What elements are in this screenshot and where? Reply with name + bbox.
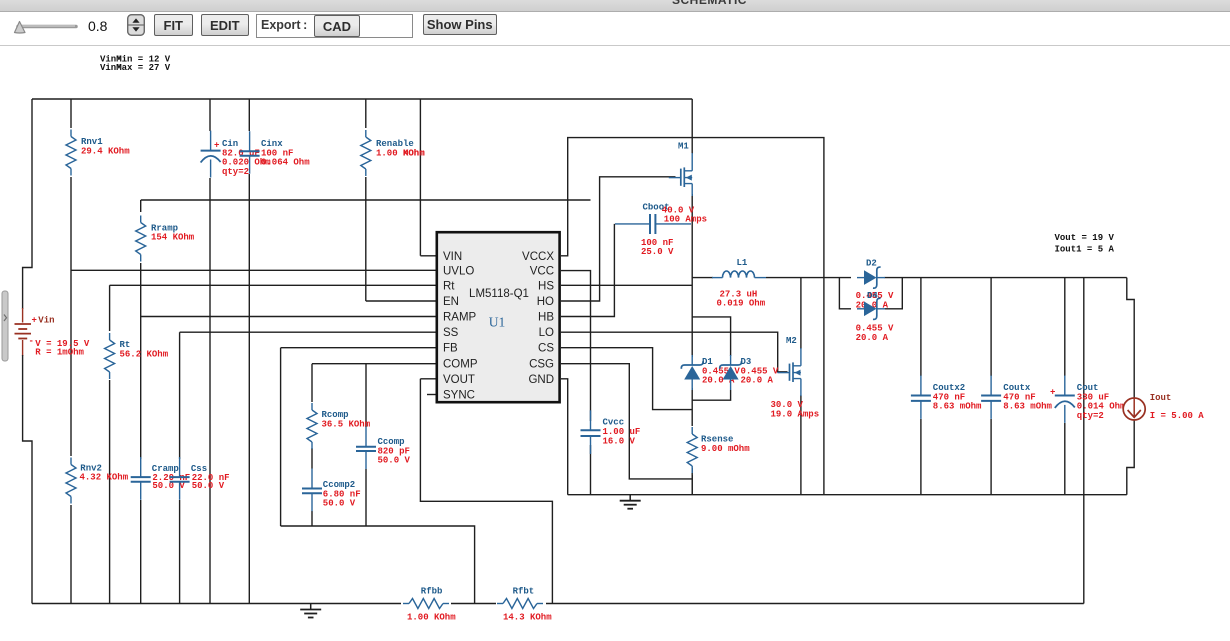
wire M2 drain xyxy=(800,278,802,349)
wire bottom GND bus left xyxy=(32,603,401,605)
svg-text:SS: SS xyxy=(443,327,459,339)
CAD button xyxy=(314,15,360,38)
wire FB net xyxy=(281,348,436,526)
svg-text:Vout = 19 V: Vout = 19 V xyxy=(1055,233,1115,243)
wire UVLO net xyxy=(71,269,436,271)
wire left border lower xyxy=(23,355,32,604)
svg-text:14.3 KOhm: 14.3 KOhm xyxy=(503,613,552,623)
svg-text:0.019 Ohm: 0.019 Ohm xyxy=(717,299,766,309)
svg-text:UVLO: UVLO xyxy=(443,265,474,277)
svg-text:25.0 V: 25.0 V xyxy=(641,247,674,257)
svg-text:L1: L1 xyxy=(737,258,748,268)
svg-text:CS: CS xyxy=(538,343,554,355)
svg-text:+: + xyxy=(214,141,219,151)
capacitor Cvcc xyxy=(581,410,641,454)
wire HB net xyxy=(561,224,614,317)
wire Coutx column xyxy=(990,278,992,495)
svg-text:9.00 mOhm: 9.00 mOhm xyxy=(701,444,750,454)
svg-text:RAMP: RAMP xyxy=(443,312,477,324)
wire Rsense bottom join xyxy=(691,468,693,495)
wire Rt column lower xyxy=(109,380,111,604)
svg-text:19.0 Amps: 19.0 Amps xyxy=(771,409,820,419)
resistor Renable xyxy=(361,130,425,176)
resistor Rcomp xyxy=(307,403,371,449)
wire VCCX net xyxy=(561,138,824,495)
wire switch node column xyxy=(691,194,693,495)
svg-text:HO: HO xyxy=(537,296,554,308)
svg-text:FB: FB xyxy=(443,343,458,355)
svg-text:D4: D4 xyxy=(867,291,878,301)
wire M2 source xyxy=(800,395,802,495)
wire COMP net xyxy=(312,364,436,402)
svg-text:Rfbb: Rfbb xyxy=(421,587,443,597)
svg-text:100 Amps: 100 Amps xyxy=(664,214,707,224)
wire output right column xyxy=(1083,278,1085,604)
svg-text:56.2 KOhm: 56.2 KOhm xyxy=(120,349,169,359)
wire Vin source lead bottom xyxy=(22,340,24,356)
svg-text:Iout1 = 5 A: Iout1 = 5 A xyxy=(1055,245,1115,255)
svg-text:EN: EN xyxy=(443,296,459,308)
svg-text:16.0 V: 16.0 V xyxy=(603,436,636,446)
diode D3 xyxy=(720,355,779,390)
svg-text:Rt: Rt xyxy=(443,280,455,292)
svg-text:154 KOhm: 154 KOhm xyxy=(151,232,195,242)
svg-text:20.0 A: 20.0 A xyxy=(856,333,889,343)
wire D1 D3 parallel loop xyxy=(692,317,730,400)
wire Coutx2 column xyxy=(920,278,922,495)
wire M1 drain column xyxy=(691,99,693,154)
wire D2 D4 loop xyxy=(839,278,902,309)
svg-text:Iout: Iout xyxy=(1150,393,1172,403)
wire Rcomp Ccomp2 column xyxy=(311,448,313,526)
capacitor Coutx xyxy=(981,376,1052,419)
wire Vin source lead top xyxy=(22,308,24,323)
wire Cin column xyxy=(209,99,211,604)
wire Cramp column lower xyxy=(140,500,142,604)
wire CS net xyxy=(561,348,692,410)
wire VIN pin column xyxy=(420,99,436,256)
wire Rnv1 column xyxy=(70,99,72,456)
svg-text:HS: HS xyxy=(538,280,554,292)
svg-text:U1: U1 xyxy=(489,315,506,330)
capacitor Cout xyxy=(1050,376,1126,423)
svg-text:1.00 KOhm: 1.00 KOhm xyxy=(407,613,456,623)
wire SYNC stub xyxy=(427,394,436,396)
capacitor Cin xyxy=(201,131,272,178)
svg-text:VIN: VIN xyxy=(443,251,462,263)
svg-text:COMP: COMP xyxy=(443,359,478,371)
wire bottom GND bus mid xyxy=(451,603,496,605)
op-amp U1 LM5118-Q1 xyxy=(437,232,560,402)
svg-text:LO: LO xyxy=(539,327,554,339)
SCHEMATIC title xyxy=(672,0,747,7)
wire VCC net xyxy=(561,271,591,495)
left panel handle (decor partial widget) xyxy=(2,291,8,361)
zoom value 0.8 xyxy=(88,18,107,34)
svg-text:29.4 KOhm: 29.4 KOhm xyxy=(81,146,130,156)
svg-text:0.064 Ohm: 0.064 Ohm xyxy=(261,158,310,168)
wire Css column lower xyxy=(179,500,181,604)
wire SS net xyxy=(180,332,436,459)
svg-text:-: - xyxy=(29,337,34,347)
wire Ccomp branch xyxy=(365,364,367,526)
svg-text:8.63 mOhm: 8.63 mOhm xyxy=(933,402,982,412)
svg-text:Rfbt: Rfbt xyxy=(513,587,535,597)
wire HS net xyxy=(561,284,692,286)
diode D1 xyxy=(681,355,740,390)
resistor Rfbb xyxy=(403,587,456,623)
spinner up/down xyxy=(127,14,147,38)
wire Rnv2 column xyxy=(70,505,72,604)
svg-text:R = 1mOhm: R = 1mOhm xyxy=(35,347,84,357)
wire FB divider tap xyxy=(281,526,475,604)
wire CSG net xyxy=(561,364,692,479)
ground symbol center xyxy=(620,495,641,509)
FIT button xyxy=(154,14,194,37)
resistor Rt xyxy=(105,333,169,379)
svg-text:D2: D2 xyxy=(866,259,877,269)
svg-text:VinMax = 27 V: VinMax = 27 V xyxy=(100,63,171,73)
svg-text:CSG: CSG xyxy=(529,359,554,371)
svg-text:HB: HB xyxy=(538,312,554,324)
wire Rt net xyxy=(110,285,436,331)
svg-text:+: + xyxy=(32,316,37,326)
wire Cinx column xyxy=(248,99,250,604)
EDIT button xyxy=(201,14,249,37)
svg-text:36.5 KOhm: 36.5 KOhm xyxy=(322,419,371,429)
svg-text:GND: GND xyxy=(528,374,554,386)
svg-text:MOhm: MOhm xyxy=(403,148,425,158)
wire right border with Iout notch xyxy=(1127,278,1134,495)
capacitor Css xyxy=(170,457,230,500)
transistor M2 xyxy=(771,336,820,419)
wire EN net xyxy=(366,99,436,301)
wire left border upper xyxy=(23,99,32,309)
zoom slider xyxy=(0,12,90,45)
capacitor Ccomp xyxy=(356,427,411,469)
wire LO net xyxy=(561,332,788,372)
diode D2 xyxy=(856,259,894,311)
toolbar xyxy=(0,12,1230,45)
svg-text:I = 5.00 A: I = 5.00 A xyxy=(1150,411,1205,421)
svg-text:50.0 V: 50.0 V xyxy=(192,481,225,491)
svg-text:M2: M2 xyxy=(786,336,797,346)
capacitor Cboot xyxy=(615,203,691,257)
diode D4 xyxy=(856,291,894,343)
svg-text:M1: M1 xyxy=(678,142,689,152)
svg-text:8.63 mOhm: 8.63 mOhm xyxy=(1003,402,1052,412)
svg-text:M: M xyxy=(116,63,121,73)
battery source Vin xyxy=(15,316,90,358)
svg-text:LM5118-Q1: LM5118-Q1 xyxy=(469,288,529,300)
resistor Rnv2 xyxy=(66,458,129,504)
svg-text:qty=2: qty=2 xyxy=(1077,411,1104,421)
svg-text:50.0 V: 50.0 V xyxy=(323,499,356,509)
wire Rramp column xyxy=(140,200,142,270)
svg-text:+: + xyxy=(1050,388,1055,398)
svg-text:SYNC: SYNC xyxy=(443,390,475,402)
transistor M1 xyxy=(669,142,692,197)
svg-text:VOUT: VOUT xyxy=(443,374,475,386)
resistor Rnv1 xyxy=(66,130,130,176)
capacitor Cramp xyxy=(131,457,191,500)
capacitor Coutx2 xyxy=(911,376,982,419)
resistor Rramp xyxy=(136,216,195,262)
svg-text:20.0 A: 20.0 A xyxy=(741,376,774,386)
wire RAMP net xyxy=(141,270,436,459)
svg-text:qty=2: qty=2 xyxy=(222,167,249,177)
svg-text:Cvcc: Cvcc xyxy=(603,418,625,428)
wire VOUT rail xyxy=(766,277,1127,279)
wire GND pin net xyxy=(561,379,568,495)
Show Pins button xyxy=(423,14,498,36)
wire HO net xyxy=(561,177,676,301)
svg-text:VCCX: VCCX xyxy=(522,251,554,263)
svg-text:50.0 V: 50.0 V xyxy=(378,456,411,466)
ground symbol left xyxy=(300,604,321,618)
wire VIN mid bus y200 xyxy=(141,199,591,201)
svg-text:4.32 KOhm: 4.32 KOhm xyxy=(80,473,129,483)
capacitor Cinx xyxy=(240,131,311,174)
capacitor Ccomp2 xyxy=(302,469,361,512)
value label M1 ratings xyxy=(662,206,707,225)
inductor L1 xyxy=(712,258,766,309)
current source Iout xyxy=(1123,393,1204,421)
wire SW to L1 xyxy=(692,277,713,279)
Export group xyxy=(256,14,413,39)
resistor Rsense xyxy=(687,427,750,473)
top grey strip xyxy=(0,0,1230,12)
svg-text:VCC: VCC xyxy=(530,265,554,277)
wire bottom GND bus right xyxy=(546,603,1084,605)
resistor Rfbt xyxy=(497,587,552,623)
wire VOUT net xyxy=(420,379,552,604)
wire power GND bus xyxy=(568,494,1127,496)
svg-text:Vin: Vin xyxy=(38,316,54,326)
wire Cout column xyxy=(1064,278,1066,495)
wire top VIN bus xyxy=(32,98,692,100)
